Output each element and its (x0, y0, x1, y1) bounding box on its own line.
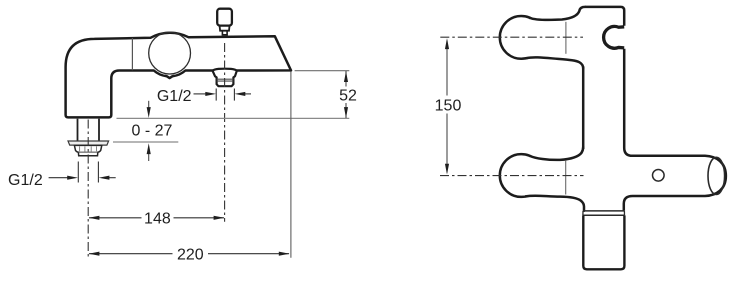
dim 52 line (345, 71, 347, 118)
dim 150 arrow up (445, 38, 449, 49)
dim 148 arrow right (214, 216, 225, 220)
small hole on arm (653, 170, 665, 182)
mounting nut (74, 145, 101, 155)
dim 220 line (89, 253, 173, 255)
nut thread marks (80, 146, 97, 151)
diverter stem (220, 26, 230, 31)
dim 220 right extension line (290, 72, 292, 258)
hose outlet bell (213, 69, 237, 87)
body left edge (582, 67, 585, 150)
handle front (middle blob circle) (500, 154, 543, 197)
G1/2 upper arrow right (241, 93, 251, 95)
dim 52 arrow up (344, 71, 348, 82)
centerline top handle (440, 36, 583, 38)
dim 150 arrow down (445, 164, 449, 175)
dim 52 extension line (295, 70, 350, 72)
outlet thread line 2 (217, 80, 234, 82)
svg-text:148: 148 (144, 211, 171, 228)
centerline middle handle (440, 175, 584, 177)
rim reference line lower (113, 141, 178, 143)
rim reference line upper (117, 117, 350, 119)
tailpiece pipe (77, 119, 79, 141)
outlet thread line 1 (217, 78, 234, 80)
foot tube (583, 215, 624, 269)
centerline of inlet leg (87, 120, 89, 258)
middle neck upper edge (530, 147, 583, 160)
centerline of outlet (224, 43, 226, 222)
middle neck white cover (526, 147, 584, 211)
section line on spout (131, 38, 133, 70)
top neck lower edge (526, 57, 583, 68)
G1/2 lower arrow left (49, 177, 72, 179)
G1/2 upper extension ticks (215, 89, 217, 101)
G1/2 lower extension lines (77, 162, 79, 183)
middle neck lower edge (526, 196, 584, 211)
spout bore ellipse (708, 157, 725, 194)
spout body outline (66, 33, 291, 118)
section line top handle (565, 22, 567, 54)
dim 220 arrow right (279, 252, 290, 256)
hose hook notch (604, 26, 625, 48)
dim 52 arrow down (344, 107, 348, 118)
body silhouette right side (585, 7, 726, 211)
dim 148 arrow left (89, 216, 100, 220)
dim 0-27 arrow down (148, 101, 150, 112)
G1/2 lower arrow right (105, 177, 116, 179)
nut lip line (78, 151, 98, 153)
svg-text:0 - 27: 0 - 27 (132, 123, 173, 140)
svg-text:G1/2: G1/2 (8, 172, 43, 189)
dim 148 line (89, 217, 142, 219)
flange washer (68, 141, 109, 145)
collar ring (583, 210, 624, 212)
top neck white cover (526, 7, 585, 69)
svg-text:52: 52 (339, 88, 357, 105)
top neck upper edge (530, 7, 585, 20)
dim 150 line (446, 41, 448, 96)
dim 0-27 arrow up (148, 151, 150, 161)
cartridge circle (149, 32, 191, 74)
section line middle handle (565, 160, 567, 194)
diverter stem lower (222, 31, 227, 35)
svg-text:G1/2: G1/2 (157, 88, 192, 105)
diverter knob (217, 9, 232, 26)
dim 220 arrow left (89, 252, 100, 256)
svg-text:150: 150 (435, 97, 462, 114)
diverter knob front (top blob circle) (500, 16, 543, 59)
dim 52 text (337, 87, 357, 104)
G1/2 upper arrow left (194, 93, 210, 95)
svg-text:220: 220 (177, 247, 204, 264)
